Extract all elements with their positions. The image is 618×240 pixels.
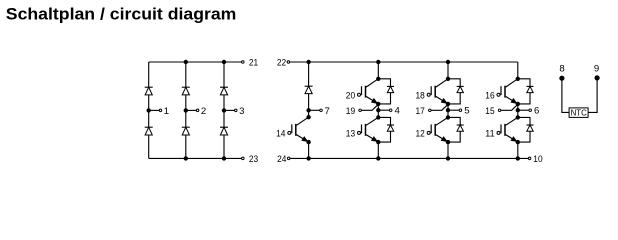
wire phase 3 mid vertical — [517, 104, 519, 118]
diode freewheel bottom phase 2 loop — [448, 117, 460, 142]
node bottom rail / leg 2 — [184, 157, 187, 160]
node top rail / phase leg 2 — [446, 60, 449, 63]
node bottom rail / phase leg 2 — [446, 157, 449, 160]
node phase 2 bottom emitter — [446, 140, 449, 143]
diode freewheel bottom phase 3 loop — [518, 117, 530, 142]
terminal 17 (aux emitter) — [429, 109, 432, 112]
node phase 1 bottom emitter — [377, 140, 380, 143]
terminal 19 (aux emitter) — [359, 109, 362, 112]
diode rectifier leg 1 bottom — [145, 126, 153, 128]
svg-text:2: 2 — [201, 106, 206, 117]
node phase 2 output — [446, 109, 449, 112]
wire rectifier leg 1 vertical — [148, 62, 150, 158]
node phase 3 bottom emitter — [516, 140, 519, 143]
terminal 24 — [287, 157, 290, 160]
node top rail / phase leg 1 — [377, 60, 380, 63]
terminal 21 — [242, 61, 245, 64]
svg-text:21: 21 — [249, 58, 258, 69]
diode brake chopper — [305, 85, 313, 87]
svg-text:11: 11 — [485, 129, 494, 140]
node phase 2 bottom collector — [446, 116, 449, 119]
node phase 3 top collector — [516, 77, 519, 80]
node phase 3 top emitter — [516, 102, 519, 105]
terminal 7 — [320, 109, 323, 112]
wire stub terminal 2 — [186, 109, 197, 111]
diode freewheel bottom phase 1 — [387, 124, 394, 126]
node bottom rail / brake leg — [307, 157, 310, 160]
wire brake diode to node 7 — [308, 94, 310, 111]
wire phase 1 mid vertical — [377, 104, 379, 118]
node top rail / brake leg — [307, 60, 310, 63]
diode freewheel bottom phase 3 — [527, 124, 534, 126]
wire inverter top rail (+DC) — [290, 61, 518, 63]
svg-text:16: 16 — [485, 90, 494, 101]
svg-text:14: 14 — [276, 129, 286, 140]
node bottom rail / leg 3 — [222, 157, 225, 160]
transistor bottom IGBT phase 2 (gate 12) — [436, 117, 448, 125]
node phase 2 top collector — [446, 77, 449, 80]
svg-text:5: 5 — [464, 106, 469, 117]
terminal 4 (phase output) — [389, 109, 392, 112]
wire phase 3 emitter to bottom rail — [517, 142, 519, 158]
svg-text:10: 10 — [533, 154, 542, 165]
node brake IGBT collector — [307, 116, 310, 119]
wire stub terminal 4 — [378, 109, 389, 111]
wire phase 1 rail to top collector — [377, 62, 379, 79]
node AC mid leg 1 — [147, 109, 150, 112]
wire inverter bottom rail (-DC) — [290, 157, 528, 159]
svg-text:17: 17 — [416, 106, 425, 117]
diode rectifier leg 3 bottom — [220, 126, 228, 128]
transistor bottom IGBT phase 1 (gate 13) — [366, 117, 378, 125]
terminal 2 — [196, 109, 199, 112]
wire node7 to brake IGBT collector — [308, 110, 310, 117]
svg-text:8: 8 — [559, 64, 564, 75]
node phase 1 bottom collector — [377, 116, 380, 119]
node phase 1 output — [377, 109, 380, 112]
transistor brake IGBT (gate 14) — [296, 117, 308, 125]
terminal 1 — [159, 109, 162, 112]
svg-text:Schaltplan / circuit diagram: Schaltplan / circuit diagram — [6, 5, 237, 24]
wire phase 2 mid vertical — [447, 104, 449, 118]
wire rectifier leg 3 vertical — [223, 62, 225, 158]
diode freewheel bottom phase 1 loop — [378, 117, 390, 142]
node top rail / leg 2 — [184, 60, 187, 63]
svg-text:3: 3 — [239, 106, 244, 117]
diode freewheel top phase 3 loop — [518, 79, 530, 104]
svg-text:19: 19 — [346, 106, 355, 117]
wire rectifier bottom rail (to terminal 23) — [149, 157, 242, 159]
node phase 3 bottom collector — [516, 116, 519, 119]
node AC mid leg 2 — [184, 109, 187, 112]
wire brake emitter to bottom rail — [308, 142, 310, 158]
wire rectifier top rail (to terminal 21) — [149, 61, 242, 63]
wire phase 3 rail to top collector — [517, 62, 519, 79]
node brake IGBT emitter — [307, 140, 310, 143]
diode freewheel top phase 2 loop — [448, 79, 460, 104]
wire stub terminal 1 — [149, 109, 160, 111]
transistor bottom IGBT phase 3 (gate 11) — [506, 117, 518, 125]
node phase 1 top collector — [377, 77, 380, 80]
terminal 6 (phase output) — [529, 109, 532, 112]
terminal 15 (aux emitter) — [498, 109, 501, 112]
terminal 10 — [528, 157, 531, 160]
node AC mid leg 3 — [222, 109, 225, 112]
node bottom rail / phase leg 3 — [516, 157, 519, 160]
wire phase 1 emitter to bottom rail — [377, 142, 379, 158]
svg-text:22: 22 — [277, 58, 286, 69]
svg-text:23: 23 — [249, 154, 258, 165]
svg-text:1: 1 — [164, 106, 169, 117]
diode rectifier leg 3 top — [220, 86, 228, 88]
wire phase 2 emitter to bottom rail — [447, 142, 449, 158]
diode freewheel top phase 2 — [457, 85, 464, 87]
wire stub terminal 7 — [309, 109, 320, 111]
diode freewheel top phase 1 — [387, 85, 394, 87]
wire stub terminal 5 — [448, 109, 459, 111]
diode rectifier leg 2 top — [182, 86, 190, 88]
node top rail / leg 3 — [222, 60, 225, 63]
svg-text:24: 24 — [277, 154, 287, 165]
svg-text:18: 18 — [416, 90, 425, 101]
svg-text:20: 20 — [346, 90, 355, 101]
wire NTC right lead — [588, 78, 597, 113]
transistor top IGBT phase 2 (gate 18) — [436, 79, 448, 87]
terminal 3 — [235, 109, 238, 112]
wire stub terminal 3 — [224, 109, 235, 111]
svg-text:13: 13 — [346, 129, 355, 140]
svg-text:NTC: NTC — [571, 107, 587, 117]
wire phase 2 rail to top collector — [447, 62, 449, 79]
svg-text:12: 12 — [416, 129, 425, 140]
node phase 1 top emitter — [377, 102, 380, 105]
svg-text:9: 9 — [594, 63, 599, 74]
node bottom rail / phase leg 1 — [377, 157, 380, 160]
wire rectifier leg 2 vertical — [185, 62, 187, 158]
diode rectifier leg 2 bottom — [182, 126, 190, 128]
diode freewheel bottom phase 2 — [457, 124, 464, 126]
svg-text:4: 4 — [395, 106, 401, 117]
terminal 23 — [242, 157, 245, 160]
node phase 3 output — [516, 109, 519, 112]
diode rectifier leg 1 top — [145, 86, 153, 88]
terminal 22 — [287, 61, 290, 64]
transistor top IGBT phase 3 (gate 16) — [506, 79, 518, 87]
svg-text:15: 15 — [485, 106, 494, 117]
node 7 junction — [307, 109, 310, 112]
diode freewheel top phase 3 — [527, 85, 534, 87]
wire brake leg upper — [308, 62, 310, 86]
wire NTC left lead — [562, 78, 569, 112]
terminal 9 (NTC) — [595, 76, 599, 80]
svg-text:7: 7 — [325, 106, 330, 117]
transistor top IGBT phase 1 (gate 20) — [366, 79, 378, 87]
terminal 5 (phase output) — [459, 109, 462, 112]
wire stub terminal 6 — [518, 109, 529, 111]
svg-text:6: 6 — [534, 106, 539, 117]
terminal 8 (NTC) — [560, 76, 564, 80]
node phase 2 top emitter — [446, 102, 449, 105]
thermistor NTC — [569, 108, 588, 118]
diode freewheel top phase 1 loop — [378, 79, 390, 104]
